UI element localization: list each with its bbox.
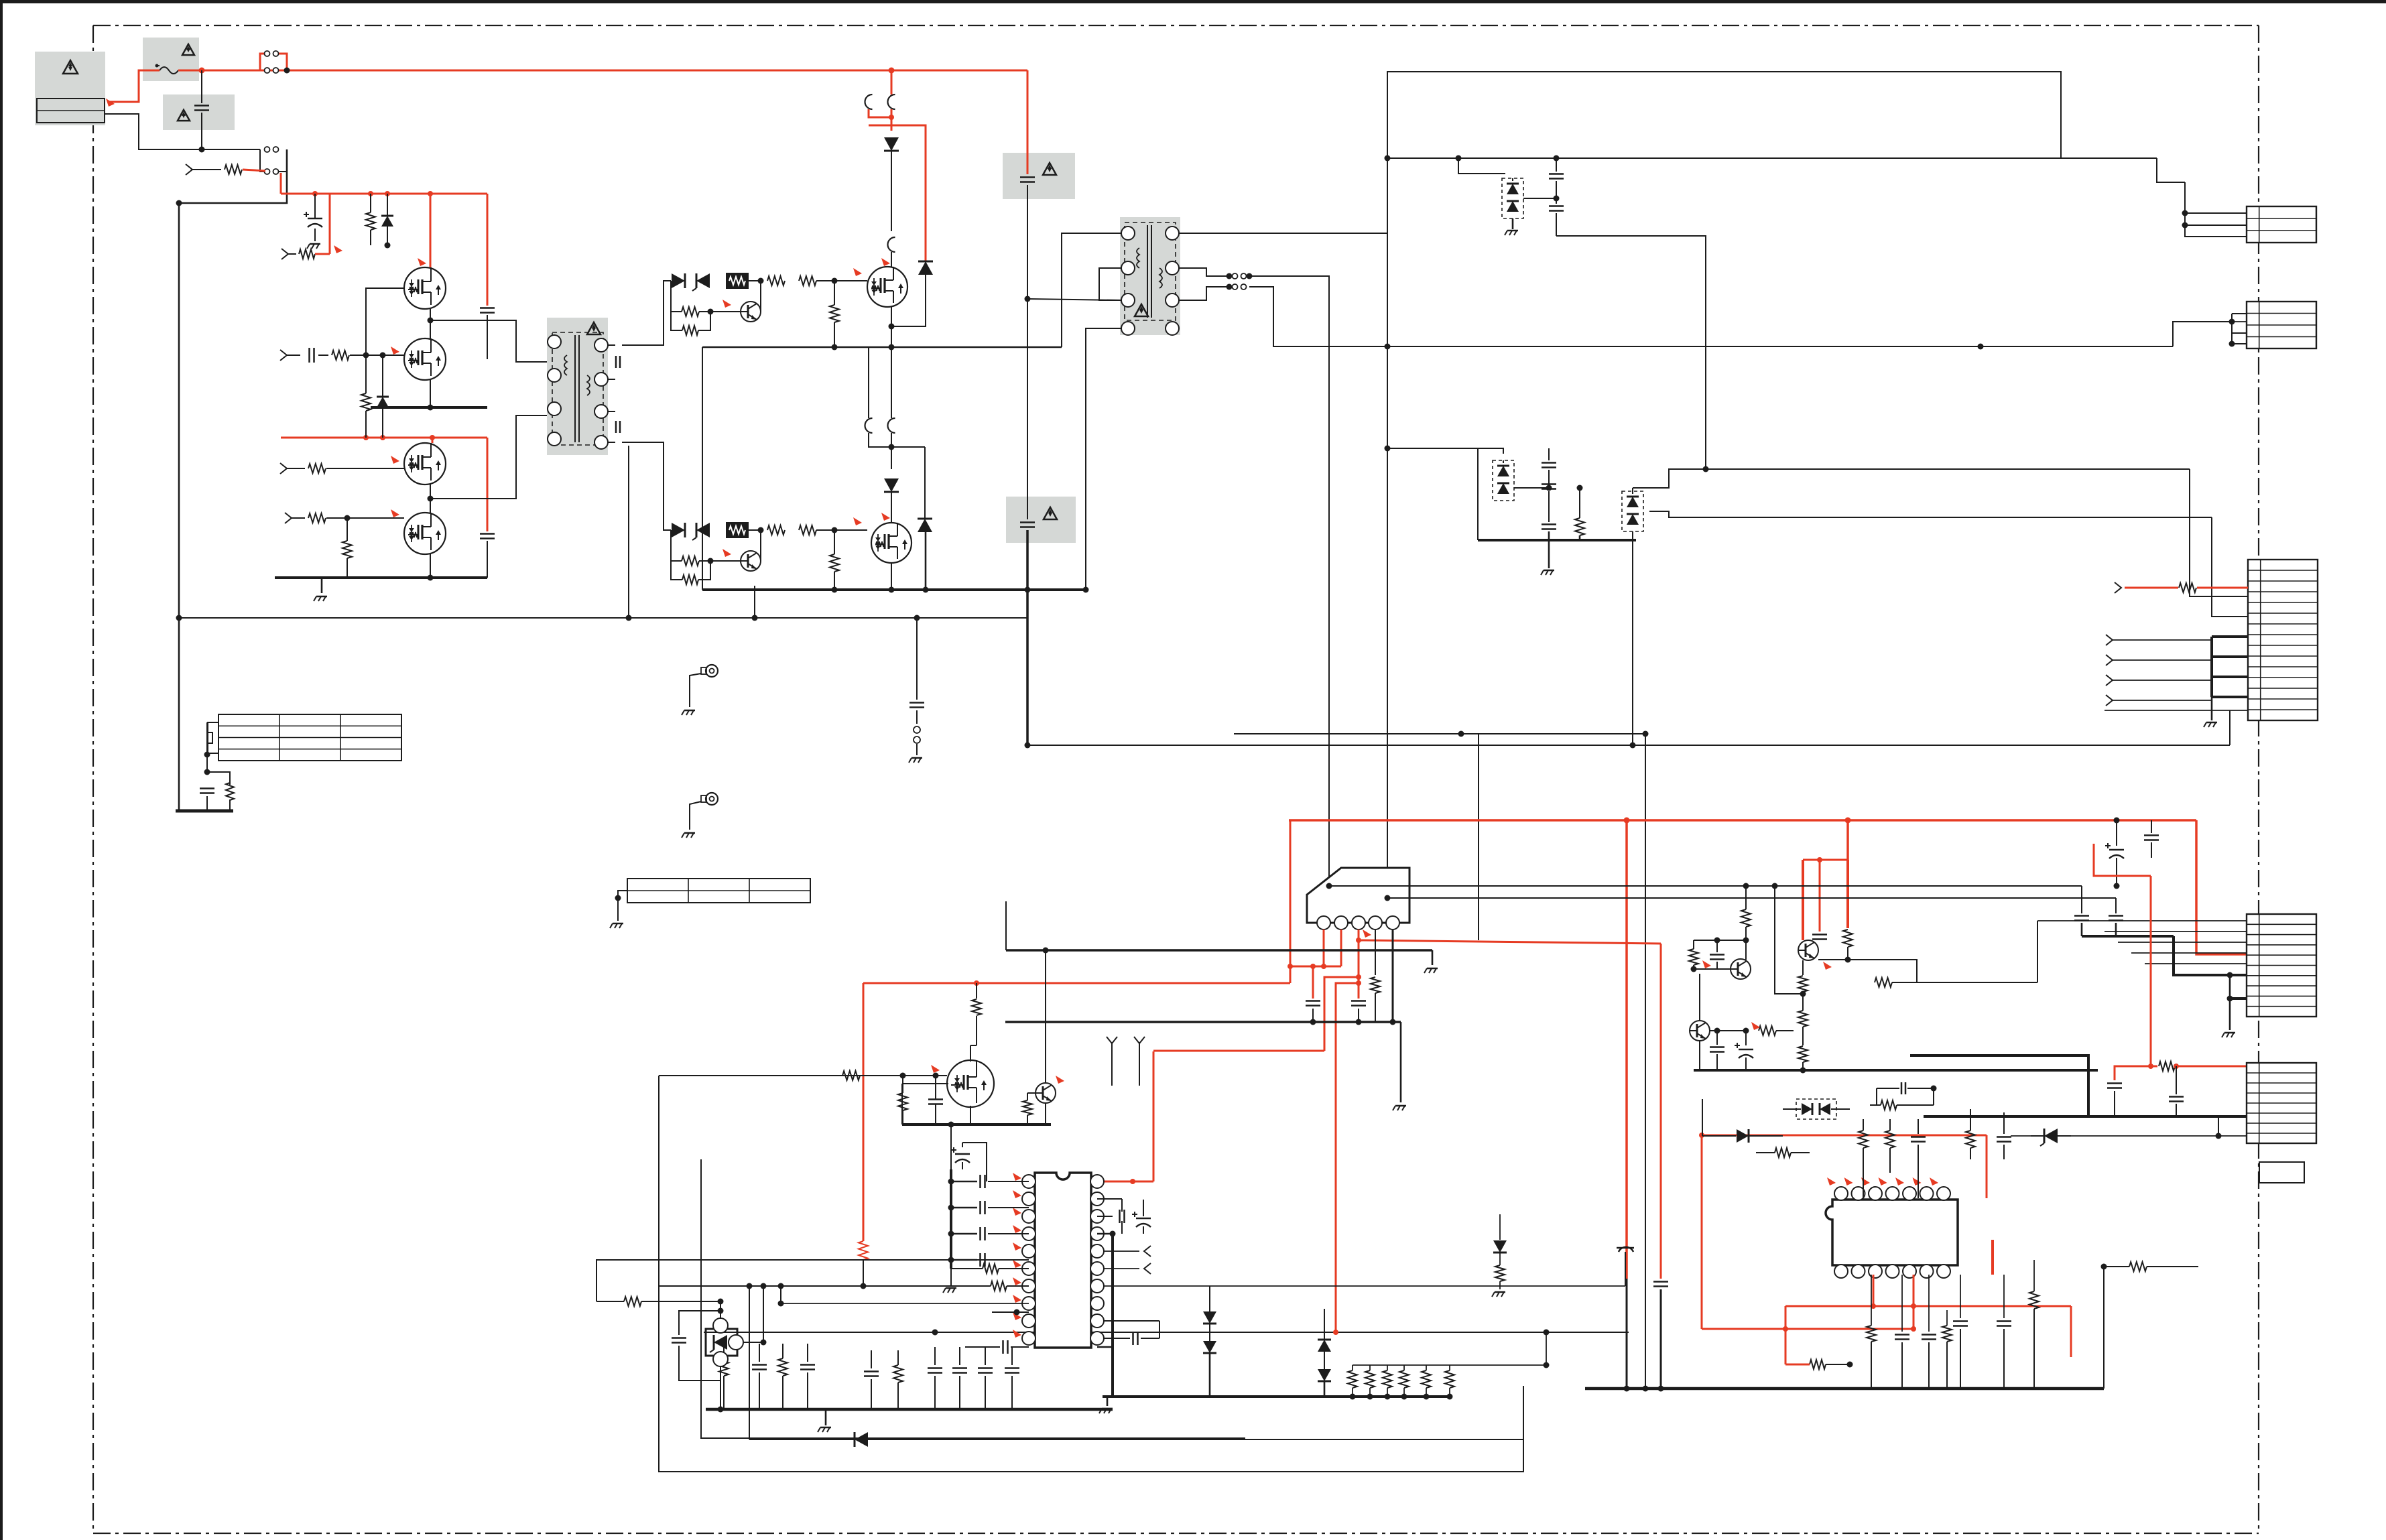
optocoupler box bbox=[706, 1329, 737, 1356]
cap forest 9 bbox=[978, 1347, 993, 1409]
mosfet Q2 bbox=[404, 338, 446, 380]
thick bus clusterB bbox=[1478, 539, 1636, 541]
IC U2 pin B2 bbox=[1852, 1265, 1865, 1278]
black wire neutral down bbox=[179, 149, 287, 811]
long wire y2148 bbox=[749, 1439, 1523, 1440]
black vertical x1457 bbox=[972, 983, 981, 1045]
red wedge M6 bbox=[881, 513, 890, 521]
cap CB3 bbox=[1542, 516, 1556, 540]
red wire y1569 bbox=[1153, 1050, 1324, 1052]
black wire Q8 bbox=[1023, 1093, 1046, 1125]
junction row3 bbox=[363, 352, 369, 359]
T2 dashed outline bbox=[1125, 222, 1176, 320]
resistor R-fb2 bottom bbox=[671, 561, 710, 584]
resistor U2 a bbox=[1870, 1086, 1937, 1110]
resistor M7 gate bbox=[842, 1071, 860, 1080]
red res Qc bbox=[1843, 860, 1853, 960]
thick bus table gnd bbox=[176, 810, 233, 813]
black wire CN1 w2 bbox=[2182, 222, 2247, 229]
black wire T2 in bottom bbox=[1086, 328, 1122, 590]
junction snub bbox=[204, 769, 210, 775]
black wire Qb em bbox=[1699, 1041, 1700, 1070]
red wire y1983 bbox=[1702, 1326, 1916, 1332]
IC U1 pin R6 bbox=[1090, 1262, 1104, 1275]
resistor bank bbox=[1348, 1365, 1454, 1400]
red wedge U1 L6 bbox=[1013, 1260, 1021, 1268]
resistor U2 c bbox=[1885, 1119, 1895, 1173]
red vertical x3209 bbox=[2150, 876, 2152, 1066]
resistor forest 3 bbox=[778, 1344, 788, 1409]
black wire Qc down bbox=[1802, 960, 1804, 975]
IC U2 pin B1 bbox=[1834, 1265, 1848, 1278]
IC U2 pin T2 bbox=[1852, 1187, 1865, 1200]
T2 core lines bbox=[1147, 225, 1151, 318]
red arrow AC bbox=[106, 99, 115, 107]
T1 pin L2 bbox=[548, 369, 561, 382]
fuse F1 bbox=[155, 64, 179, 74]
red rail upper bbox=[281, 193, 487, 195]
red wedge M5 bbox=[881, 258, 890, 266]
junction T2 outb bbox=[1227, 284, 1233, 290]
junction neutral bbox=[199, 147, 205, 153]
gray box snubber1 bbox=[1003, 153, 1075, 199]
red vertical x2478 bbox=[1653, 944, 1668, 1389]
T1 winding right bbox=[587, 375, 590, 395]
input arrow row3 bbox=[280, 350, 300, 361]
cap forest 4 bbox=[800, 1344, 815, 1409]
junction y1112 a bbox=[1025, 743, 1031, 749]
T1 dashed outline bbox=[552, 332, 603, 445]
red vertical x1288 bbox=[863, 983, 865, 1241]
input arrow pair Y1 bbox=[1107, 1037, 1117, 1086]
resistor U2 b bbox=[1859, 1119, 1868, 1198]
black wire Qa top bbox=[1745, 940, 1747, 960]
diode U2 left bbox=[1702, 1129, 1783, 1143]
cap U1 L9 bbox=[965, 1340, 1029, 1354]
wire M6 top from bus bbox=[869, 347, 891, 418]
long wire y1112 bbox=[1027, 745, 2230, 746]
wire drv base bottom bbox=[760, 530, 761, 561]
black wire sec loop down bbox=[1385, 229, 1391, 350]
ground x1368 bbox=[909, 758, 922, 763]
diode D-drv bottom bbox=[672, 523, 685, 537]
T1 pin R1 bbox=[594, 338, 608, 352]
black wire q2 src bbox=[428, 380, 434, 411]
cap Qb bbox=[1710, 1028, 1746, 1071]
black wire sec loop bbox=[1387, 72, 2185, 229]
thick bus C5 bbox=[1924, 1115, 2247, 1118]
T2 winding right bbox=[1159, 268, 1162, 288]
black wire C5 low bbox=[2011, 1116, 2247, 1139]
resistors under U2 bbox=[1867, 1275, 1876, 1389]
black wire E2 bbox=[690, 801, 701, 830]
mosfet Q7 bbox=[947, 1060, 994, 1107]
junction red rail e bbox=[363, 435, 369, 440]
resistor trio r1 bbox=[1751, 1022, 1794, 1035]
red wire fuse loop bbox=[260, 54, 287, 70]
wire drv base top bbox=[760, 281, 761, 312]
black wire CN-mid low bbox=[2105, 710, 2248, 745]
junction bus mid b bbox=[889, 344, 895, 350]
cap forest 5 bbox=[864, 1350, 879, 1409]
resistor R-fb1 top bbox=[671, 281, 714, 316]
ground CN-low bbox=[610, 923, 623, 928]
junction left tap bbox=[176, 446, 755, 621]
thick bus under U1 bbox=[706, 1408, 1113, 1411]
red wire y1224 bbox=[1289, 818, 2196, 824]
boxed resistor R-drv bottom bbox=[726, 522, 749, 538]
black wire clusterA feed bbox=[1456, 155, 1506, 174]
thick bus M7 bbox=[902, 1123, 1051, 1126]
cap M7 bbox=[928, 1076, 943, 1125]
boxed resistor R-drv top bbox=[726, 273, 749, 289]
wire drv emitter top bbox=[710, 311, 741, 312]
junction red rail a bbox=[312, 191, 318, 196]
T2 pin L2 bbox=[1121, 261, 1135, 275]
long wire y1919 bbox=[659, 1283, 977, 1289]
black wire T2 out4 bbox=[1249, 276, 1329, 886]
black wire T2 out5 bbox=[1249, 287, 1390, 346]
red wire y1694 bbox=[1699, 1133, 1987, 1329]
ecap U1 bbox=[951, 1143, 987, 1181]
red wedge U2 T5 bbox=[1895, 1177, 1904, 1185]
IC U1 pin L6 bbox=[1022, 1262, 1035, 1275]
black wire Q8 col bbox=[1045, 950, 1046, 1083]
red wire U3 pin2 bbox=[1340, 929, 1342, 966]
black wire AC neutral bbox=[105, 114, 260, 149]
T1 out cap top bbox=[608, 345, 620, 379]
red wedge Q1 bbox=[418, 258, 426, 266]
red resistor x1288 bbox=[859, 1241, 868, 1289]
red vertical x2757 up bbox=[1846, 820, 1849, 860]
cap U1 in 3 bbox=[948, 1227, 1029, 1240]
resistor R row1 bbox=[225, 165, 242, 174]
black wire q3q4 mid bbox=[428, 485, 488, 513]
black wire T2 out3 bbox=[1179, 287, 1229, 300]
red wedge gate top bbox=[853, 268, 862, 276]
black vertical x1118 bbox=[747, 1283, 753, 1440]
junction table feed bbox=[204, 752, 210, 758]
resistor R-fb1 bottom bbox=[671, 530, 714, 566]
black wire T2 in top bbox=[1062, 233, 1122, 347]
IC U1 pin L10 bbox=[1022, 1332, 1035, 1345]
red wedge U1 L10 bbox=[1013, 1330, 1021, 1338]
cap U1 in 4 bbox=[948, 1253, 1029, 1267]
resistor opto feed bbox=[596, 1297, 724, 1306]
resistor U2 left bbox=[1756, 1148, 1810, 1157]
cap under U2d bbox=[1997, 1275, 2011, 1389]
diode D-M6 bbox=[884, 478, 899, 523]
input arrow row4 bbox=[285, 513, 305, 523]
black wire E1 bbox=[690, 673, 701, 707]
T1 pin R3 bbox=[594, 405, 608, 418]
black wire T1 to top driver bbox=[622, 281, 671, 345]
red wedge U1 L2 bbox=[1013, 1190, 1021, 1198]
red vertical x2427 bbox=[1624, 818, 1630, 1389]
black vertical x2455 bbox=[1643, 734, 1649, 1392]
capacitor C-snub bbox=[200, 789, 214, 793]
thick bus q2 bbox=[371, 406, 487, 409]
resistor Qc chain1 bbox=[1798, 976, 1808, 997]
red wire IC1 pin1R bbox=[1097, 1179, 1153, 1184]
zener Z-drv top bbox=[692, 273, 710, 291]
black wire snub loop bbox=[207, 772, 230, 785]
dual diode DA bbox=[1502, 178, 1523, 218]
red wire Q3 drain bbox=[432, 438, 434, 443]
black wire clusterA out bbox=[1556, 236, 1706, 469]
red wedge U1 L4 bbox=[1013, 1225, 1021, 1233]
npn Qa bbox=[1731, 959, 1751, 979]
connector CN-top2 bbox=[2247, 302, 2316, 348]
red resistor bottom bbox=[1785, 1360, 1853, 1369]
red wedge drv bottom bbox=[723, 549, 731, 557]
caps under U2c bbox=[1942, 1275, 1968, 1389]
zener col2 bbox=[1318, 1309, 1331, 1397]
red wedge Q4 bbox=[391, 509, 399, 517]
warning triangle snubber2 bbox=[1044, 507, 1057, 519]
red wire Qc bbox=[1802, 860, 1804, 940]
IC U3 pin 3 bbox=[1352, 916, 1365, 929]
black wire Qc tap bbox=[1775, 886, 1803, 994]
input arrow row3b bbox=[280, 463, 305, 474]
arrow out U1 R5 bbox=[1103, 1246, 1151, 1257]
IC U1 pin R8 bbox=[1090, 1297, 1104, 1310]
T1 core lines bbox=[575, 335, 579, 442]
T2 pin L1 bbox=[1121, 227, 1135, 240]
connector CN-top1 bbox=[2247, 206, 2316, 243]
T1 pin L4 bbox=[548, 432, 561, 446]
resistor bank rail bbox=[1353, 1362, 1550, 1368]
cap CA2 bbox=[1549, 198, 1564, 236]
black wire sec down2 bbox=[1387, 346, 1388, 898]
zener Z-gate3 bbox=[377, 352, 389, 438]
diode D-y2148 bbox=[855, 1432, 868, 1447]
connector CN-mid bbox=[2248, 560, 2318, 720]
red cap drop U3a bbox=[1306, 966, 1320, 1022]
black wire CN2 w1 bbox=[2173, 314, 2247, 346]
black wire quad to T1 bbox=[487, 320, 547, 362]
black wire clusterB out2 bbox=[1649, 511, 2212, 517]
red wire bypass M5 bbox=[869, 125, 926, 261]
IC U3 pin 1 bbox=[1317, 916, 1330, 929]
red wedge U1 L7 bbox=[1013, 1277, 1021, 1285]
IC U1 pin L1 bbox=[1022, 1175, 1035, 1188]
wire U1 R7 bbox=[1103, 1256, 1625, 1286]
red wire M5 drain top bbox=[891, 70, 893, 94]
npn Qb bbox=[1690, 1021, 1710, 1041]
red wedge Q3 bbox=[391, 456, 399, 464]
black wire M7 gate bbox=[659, 1073, 947, 1079]
dash-dot frame right bbox=[2258, 25, 2259, 1533]
red wedge gate bottom bbox=[853, 517, 862, 525]
input arrow row1 bbox=[186, 164, 221, 175]
junction M5 mid bbox=[889, 115, 894, 120]
black wire x1419 down bbox=[948, 1122, 954, 1170]
red wire y1403 bbox=[1359, 940, 1661, 944]
dash-dot frame left bbox=[92, 25, 94, 1533]
junction y1112 b bbox=[1630, 743, 1636, 749]
IC U1 pin R7 bbox=[1090, 1279, 1104, 1293]
red jog U3 fb bbox=[1324, 977, 1359, 1051]
black wire DA link bbox=[1523, 196, 1560, 202]
capacitor C-sn1 bbox=[1020, 70, 1035, 299]
optocoupler pin top bbox=[713, 1318, 728, 1333]
junction M5 top bbox=[889, 68, 895, 74]
black wire left tap bbox=[179, 615, 1027, 621]
loop pins x1368 bbox=[914, 726, 920, 755]
AC inlet connector table bbox=[37, 99, 105, 123]
resistor R-CNmid bbox=[2179, 583, 2196, 592]
black wire CN1 w1 bbox=[2182, 210, 2247, 216]
dual diode DB2 bbox=[1622, 488, 1643, 531]
cap forest 2 bbox=[752, 1344, 767, 1409]
ground CN-mid bbox=[2204, 697, 2217, 727]
IC U1 pin L3 bbox=[1022, 1210, 1035, 1223]
red vertical x3090 bbox=[2070, 1306, 2072, 1357]
resistor R-drv3 top bbox=[799, 276, 867, 285]
T1 pin R2 bbox=[594, 373, 608, 386]
thick bus C4 bbox=[2082, 936, 2247, 1030]
red wedge U1 L5 bbox=[1013, 1242, 1021, 1250]
small box CN-r6 bbox=[2259, 1162, 2304, 1183]
black wire Q2 gate bbox=[366, 355, 404, 356]
IC U3 pin 4 bbox=[1369, 916, 1382, 929]
snubber arc M5 bbox=[888, 237, 895, 267]
ground quad bbox=[314, 596, 327, 601]
black wire M6 source bbox=[891, 563, 892, 590]
black wire Qb col bbox=[1699, 974, 1700, 1021]
thick bus y2065 bbox=[1585, 1386, 2104, 1392]
caps under U2a bbox=[1895, 1275, 1909, 1389]
red vertical x2795 bbox=[1873, 1275, 1875, 1306]
cap C-q12 bbox=[480, 194, 495, 359]
T1 pin L3 bbox=[548, 402, 561, 415]
red wedge U2 T4 bbox=[1879, 1177, 1887, 1185]
red wire U3 pin1 bbox=[1323, 929, 1325, 966]
junction AC live bbox=[284, 68, 290, 74]
gray box T2 bbox=[1120, 217, 1180, 335]
resistor right U2b bbox=[2101, 1262, 2199, 1271]
junction bus bot b bbox=[889, 587, 895, 593]
long wire y1988 bbox=[704, 1330, 1629, 1336]
ground clusterA bbox=[1505, 218, 1518, 235]
resistor R-snub bbox=[226, 783, 234, 800]
dash-dot frame bottom bbox=[93, 1533, 2259, 1534]
resistor row4 bbox=[308, 513, 404, 523]
resistor forest 1 bbox=[719, 1344, 729, 1409]
red wire row2 out bbox=[315, 194, 330, 254]
resistor Qa top bbox=[1741, 886, 1751, 944]
black vertical x3267 bbox=[2190, 469, 2248, 596]
red wedge Q7 bbox=[931, 1065, 940, 1073]
snubber arcs top bbox=[865, 94, 895, 109]
IC U1 pin R3 bbox=[1090, 1210, 1104, 1223]
red vertical x1925 bbox=[1290, 820, 1292, 983]
resistor R-fb2 top bbox=[671, 312, 710, 335]
black wire Qa base bbox=[1694, 960, 1731, 969]
black wires CN-r4 bbox=[2037, 921, 2247, 964]
black wire quad gnd bbox=[321, 578, 323, 593]
mosfet Q5 bbox=[867, 267, 907, 307]
red vertical x3277 bbox=[2196, 820, 2247, 954]
thick bus trio bbox=[1694, 1069, 2098, 1072]
resistor U2 e bbox=[1966, 1109, 1975, 1159]
red wedge U1 L9 bbox=[1013, 1312, 1021, 1320]
cap chain x1368 bbox=[909, 618, 924, 724]
wire U1 L7 bbox=[992, 1309, 1029, 1316]
resistor U1 row5 bbox=[951, 1264, 1029, 1273]
cap Qa base bbox=[1694, 938, 1746, 970]
ground C4 bbox=[2222, 1033, 2235, 1037]
input arrows CN-mid bbox=[2106, 635, 2212, 706]
IC U1 pin R4 bbox=[1090, 1227, 1104, 1240]
gray box snubber2 bbox=[1006, 497, 1076, 543]
black wire DB link bbox=[1514, 485, 1583, 491]
red vertical x2973b bbox=[1991, 1240, 1994, 1275]
npn Q8 bbox=[1035, 1083, 1056, 1103]
page left border bar bbox=[0, 0, 3, 1540]
red wedge Q7b bbox=[1056, 1076, 1064, 1084]
IC U2 pin T4 bbox=[1886, 1187, 1899, 1200]
thick frame bottom right bbox=[1910, 1055, 2088, 1116]
IC U1 pin R1 bbox=[1090, 1175, 1104, 1188]
red wire AC live run bbox=[287, 70, 1027, 72]
red jog C4 bbox=[2094, 844, 2151, 876]
junction row4 bbox=[344, 515, 351, 521]
IC U1 pin L7 bbox=[1022, 1279, 1035, 1293]
black wire u2 misc1 bbox=[1702, 1099, 1703, 1136]
dash-dot frame top bbox=[93, 25, 2259, 26]
red wedge U2 T3 bbox=[1861, 1177, 1870, 1185]
cap U2 d bbox=[1911, 1119, 1926, 1198]
black wire q1q2 mid bbox=[428, 309, 488, 338]
diode D-M5 bbox=[884, 137, 899, 231]
thick bus U3 bbox=[1005, 1019, 1401, 1103]
black wire opto left bbox=[596, 1260, 1029, 1301]
T1 out cap bottom bbox=[608, 411, 620, 442]
black wire M7 source bbox=[902, 1084, 970, 1125]
black wire G5 to T2 pin bbox=[1027, 299, 1122, 300]
warning triangle fuse bbox=[182, 44, 194, 55]
black wire CN1 w3 bbox=[2185, 182, 2247, 237]
IC U3 pin 5 bbox=[1386, 916, 1399, 929]
mosfet Q6 bbox=[871, 523, 912, 563]
black wire T2 L2L3 link bbox=[1099, 268, 1121, 300]
ground under U1 bbox=[818, 1409, 831, 1432]
mosfet Q4 bbox=[404, 513, 446, 554]
black wire Q1 gate bbox=[366, 288, 404, 355]
diode D-drv top bbox=[672, 273, 685, 288]
black wire clusterB out right bbox=[1706, 468, 2190, 470]
gray caution box AC inlet bbox=[35, 52, 105, 125]
black wire x2437 down bbox=[1632, 531, 1633, 745]
junction T2 outa bbox=[1227, 273, 1253, 279]
resistor R-drv2 top bbox=[767, 276, 785, 285]
IC U2 pin B5 bbox=[1903, 1265, 1916, 1278]
ground x2238 bbox=[1492, 1292, 1505, 1297]
gray box T1 bbox=[547, 318, 608, 455]
ground clusterB bbox=[1541, 540, 1554, 575]
cap U1 R9 bbox=[1103, 1321, 1159, 1345]
input arrow row2 bbox=[281, 249, 296, 259]
thick bus bottom quad bbox=[275, 554, 487, 581]
junction red rail c bbox=[385, 191, 390, 196]
T2 pin L3 bbox=[1121, 294, 1135, 307]
black wire clusterB feed bbox=[1385, 446, 1504, 454]
mosfet Q1 bbox=[404, 267, 446, 309]
resistor Qc chain3 bbox=[1798, 1046, 1808, 1074]
optocoupler pin bottom bbox=[713, 1352, 728, 1366]
